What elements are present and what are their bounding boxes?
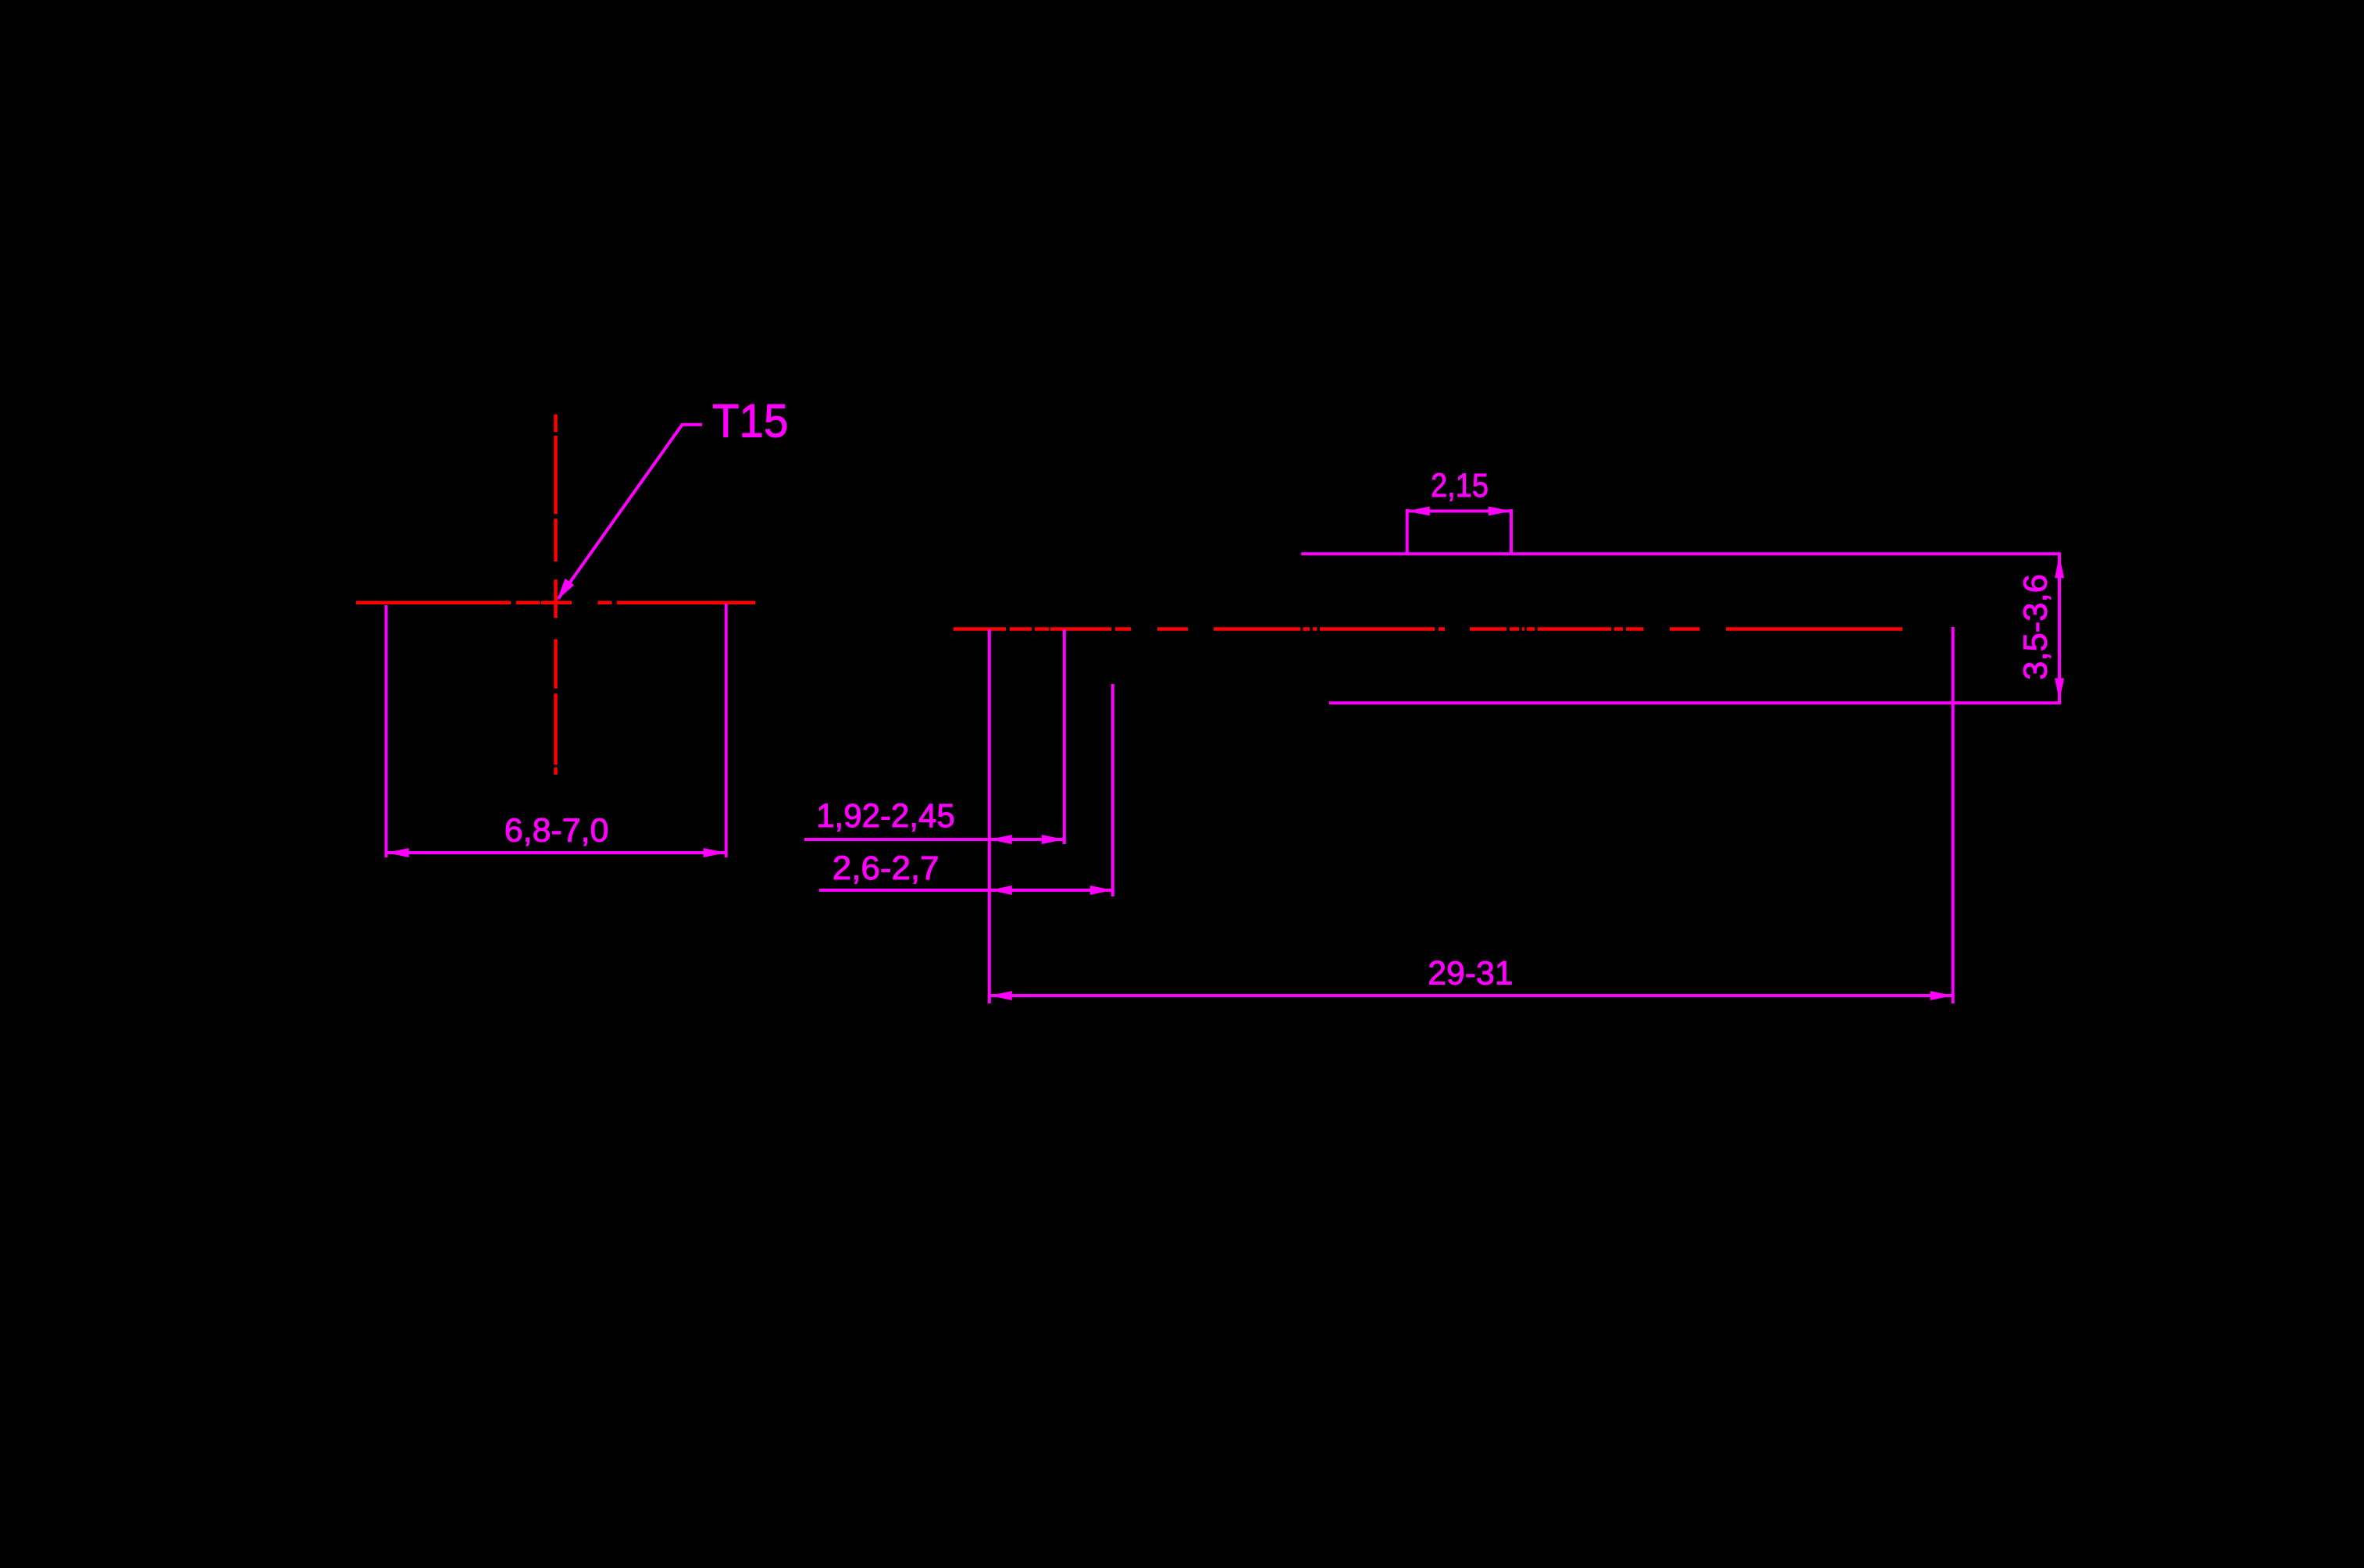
extension line right of 6.8-7.0 dimension bbox=[725, 604, 728, 857]
dimension line 2.6-2.7 bbox=[819, 889, 1113, 892]
arrowhead right of 29-31 bbox=[1931, 991, 1953, 1000]
svg-text:2,6-2,7: 2,6-2,7 bbox=[833, 850, 940, 887]
svg-text:2,15: 2,15 bbox=[1431, 467, 1489, 504]
dimension line 3.5-3.6 (vertical, right end) bbox=[2058, 554, 2061, 702]
svg-text:29-31: 29-31 bbox=[1428, 955, 1513, 992]
svg-text:3,5-3,6: 3,5-3,6 bbox=[2017, 574, 2055, 680]
dimension line 2.15 (tab top) bbox=[1407, 510, 1511, 513]
arrowhead left of 1.92-2.45 bbox=[989, 835, 1012, 844]
outline: tab right edge bbox=[1510, 509, 1513, 554]
outline: bottom edge of shaft (right view) bbox=[1329, 701, 2061, 704]
centerline: horizontal axis of plug (left view) bbox=[356, 601, 755, 605]
arrowhead right of 2.6-2.7 bbox=[1090, 886, 1113, 895]
arrowhead left of 2.15 bbox=[1407, 507, 1430, 516]
dimension line 29-31 bbox=[989, 994, 1953, 997]
arrowhead right of 6.8-7.0 bbox=[704, 848, 726, 857]
extension line C (for 2.6-2.7) bbox=[1111, 684, 1114, 896]
svg-text:1,92-2,45: 1,92-2,45 bbox=[816, 797, 955, 835]
arrowhead down of 3.5-3.6 bbox=[2055, 679, 2064, 701]
arrowhead up of 3.5-3.6 bbox=[2055, 555, 2064, 578]
leader line to T15 label bbox=[558, 425, 702, 599]
svg-text:6,8-7,0: 6,8-7,0 bbox=[505, 811, 609, 849]
outline: top edge of shaft (right view) bbox=[1301, 552, 2061, 555]
arrowhead left of 6.8-7.0 bbox=[387, 848, 409, 857]
extension line left of 6.8-7.0 dimension bbox=[385, 605, 388, 857]
arrowhead left of 2.6-2.7 bbox=[989, 886, 1012, 895]
centerline: horizontal axis of shaft (right view) bbox=[954, 627, 1902, 631]
arrowhead right of 1.92-2.45 bbox=[1042, 835, 1064, 844]
extension line right (for 29-31) bbox=[1952, 627, 1955, 1003]
outline: tab left edge bbox=[1406, 509, 1409, 554]
leader arrowhead T15 bbox=[558, 579, 575, 600]
extension line A (left, for 1.92-2.45 / 2.6-2.7 / 29-31) bbox=[988, 629, 991, 1003]
extension line B (for 1.92-2.45) bbox=[1063, 629, 1066, 844]
arrowhead left of 29-31 bbox=[989, 991, 1012, 1000]
centerline: vertical axis of plug (left view) bbox=[554, 415, 558, 775]
dimension line 1.92-2.45 bbox=[804, 838, 1064, 841]
arrowhead right of 2.15 bbox=[1489, 507, 1511, 516]
svg-text:T15: T15 bbox=[712, 394, 788, 447]
dimension line 6.8-7.0 bbox=[387, 851, 726, 854]
